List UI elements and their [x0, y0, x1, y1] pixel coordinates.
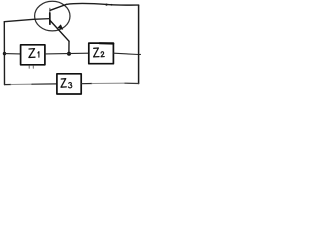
box Z3 [57, 74, 81, 94]
label Z1 [29, 49, 39, 58]
box Z1 [21, 45, 45, 65]
wire right border vertical [138, 5, 140, 83]
wire base lead from left border to base bar [4, 19, 50, 22]
transistor Q1 collector lead [50, 4, 66, 10]
transistor Q1 emitter lead with arrow [50, 21, 69, 42]
box Z2 darker top edge [100, 42, 114, 44]
label Z2 [94, 48, 105, 57]
wire bottom left from border to Z3 [5, 84, 12, 86]
wire Z1 to Z2 through junction [45, 52, 89, 55]
box Z2 [89, 43, 114, 64]
node left border junction dot [3, 52, 6, 55]
tick marks below Z1 [29, 66, 33, 68]
transistor Q1 circle [35, 1, 70, 31]
wire Z3 to right border (bottom wire) [81, 83, 92, 85]
wire collector to right border (top wire) [66, 3, 138, 5]
label Z3 [61, 79, 72, 88]
transistor Q1 base bar [49, 8, 51, 13]
node emitter junction dot [67, 52, 71, 56]
wire Z2 to right border [114, 53, 141, 54]
wire emitter vertical to junction [68, 41, 70, 53]
wire left border vertical [3, 22, 5, 85]
wire left border to Z1 [5, 53, 21, 55]
top wire ink blobs [105, 4, 107, 6]
